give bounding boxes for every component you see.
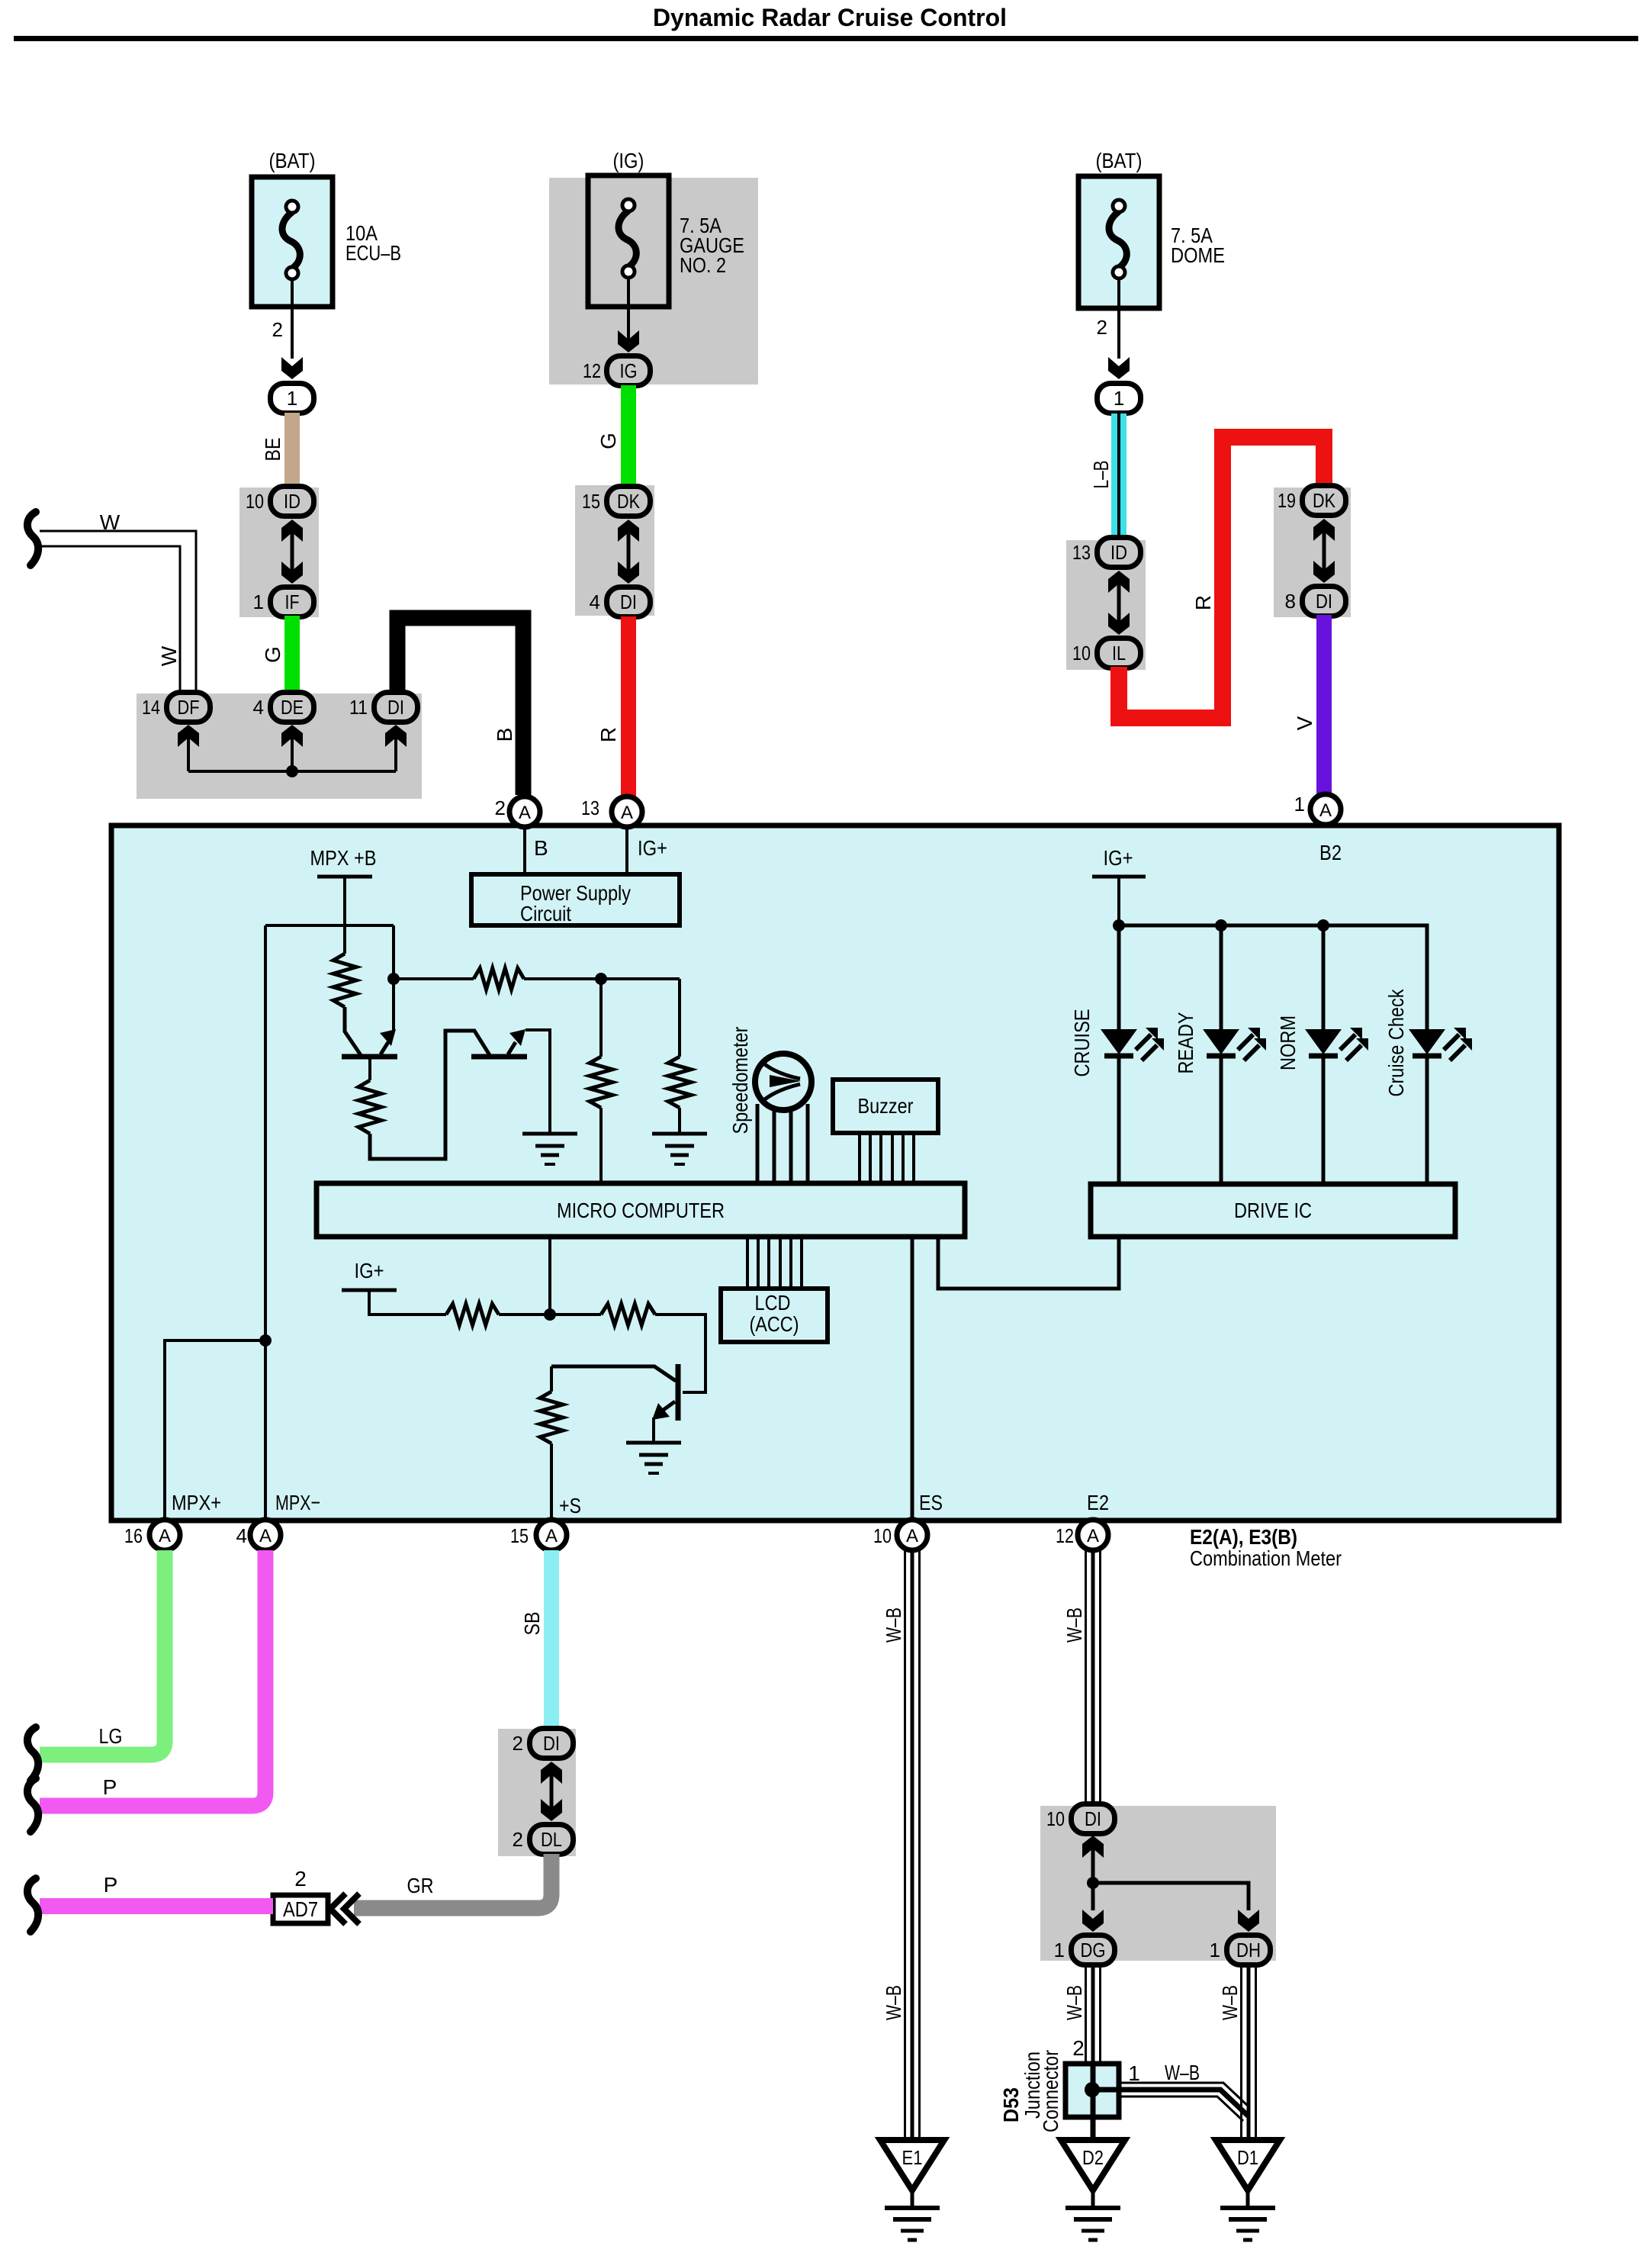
wire R2 line [394, 977, 474, 980]
svg-text:E2: E2 [1087, 1491, 1109, 1514]
svg-text:BE: BE [261, 438, 284, 462]
svg-text:DOME: DOME [1171, 243, 1225, 267]
wire MPX+B down [343, 877, 346, 954]
connector oval DI pin 10 bottom [1072, 1804, 1115, 1834]
wire crossbar [265, 924, 394, 927]
svg-text:12: 12 [1056, 1524, 1074, 1547]
svg-text:(BAT): (BAT) [1096, 149, 1143, 172]
squiggle P 2 [27, 1878, 38, 1932]
wire V [1316, 615, 1332, 795]
wire L-B [1111, 414, 1127, 539]
svg-text:DI: DI [387, 696, 404, 719]
wire 13A to PS [625, 827, 628, 874]
svg-text:V: V [1293, 716, 1316, 730]
connector oval DI pin 11 [374, 693, 418, 722]
arrow into connector 1 [281, 357, 303, 379]
wire W-B E2 [1085, 1550, 1087, 1806]
micro computer box [317, 1183, 965, 1237]
wire W-B ES [904, 1550, 906, 2140]
wire R2 line b [524, 977, 680, 980]
svg-text:ID: ID [284, 490, 301, 513]
svg-text:10: 10 [1072, 642, 1091, 665]
transistor Q1 emitter [381, 1042, 388, 1054]
svg-text:CRUISE: CRUISE [1070, 1009, 1094, 1077]
resistor R6 [446, 1304, 499, 1325]
fuse F1 ECU-B 10A [252, 177, 333, 307]
svg-text:A: A [159, 1526, 171, 1546]
resistor R5 [668, 1057, 691, 1108]
svg-text:IF: IF [285, 591, 300, 613]
svg-text:2: 2 [513, 1828, 523, 1851]
svg-text:A: A [545, 1526, 558, 1546]
LED CRUISE [1101, 1029, 1137, 1054]
connector oval DI pin 2 [530, 1729, 574, 1759]
connector gray box DI/DL [498, 1729, 576, 1856]
svg-text:1: 1 [1210, 1939, 1220, 1961]
LCD box [721, 1289, 828, 1342]
svg-text:4: 4 [236, 1524, 247, 1547]
svg-text:W–B: W–B [882, 1985, 905, 2020]
svg-text:P: P [103, 1775, 117, 1799]
svg-text:A: A [621, 803, 633, 823]
wire D53 to DH [1119, 2083, 1249, 2107]
svg-text:AD7: AD7 [283, 1897, 318, 1921]
svg-text:MICRO COMPUTER: MICRO COMPUTER [557, 1199, 725, 1222]
wire B thick black [397, 618, 523, 795]
svg-text:NORM: NORM [1276, 1015, 1300, 1070]
arrow into DG [1082, 1910, 1104, 1932]
wire W double line [40, 531, 196, 693]
svg-text:DE: DE [281, 696, 304, 719]
svg-text:2: 2 [513, 1732, 523, 1755]
buzzer comb [858, 1133, 861, 1183]
combination meter box [111, 825, 1559, 1521]
drive ic box [1091, 1184, 1455, 1237]
svg-text:10: 10 [1046, 1807, 1065, 1830]
svg-text:4: 4 [590, 591, 600, 613]
svg-text:W–B: W–B [1062, 1607, 1086, 1643]
svg-text:DF: DF [178, 696, 200, 719]
junction dot IG lower [544, 1308, 556, 1321]
svg-text:B: B [534, 836, 548, 860]
svg-text:ECU–B: ECU–B [346, 241, 401, 265]
svg-text:DRIVE IC: DRIVE IC [1234, 1199, 1312, 1222]
connector oval DF pin 14 [167, 693, 211, 722]
double arrow DK-DI [618, 520, 639, 542]
svg-text:Circuit: Circuit [520, 902, 571, 925]
connector oval DI pin 8 [1303, 587, 1346, 616]
svg-text:1: 1 [1054, 1939, 1065, 1961]
AD7 box [273, 1895, 328, 1923]
svg-text:W–B: W–B [1062, 1985, 1086, 2020]
svg-text:NO. 2: NO. 2 [680, 253, 726, 277]
svg-text:11: 11 [349, 696, 368, 719]
wire Q1 base down [368, 1057, 371, 1080]
IG+ right bar [1092, 875, 1146, 879]
LED wire NORM [1322, 925, 1326, 1029]
resistor R8 [540, 1392, 563, 1443]
LED wire READY [1220, 925, 1223, 1029]
resistor R7 [601, 1304, 655, 1325]
svg-text:LCD: LCD [755, 1291, 791, 1315]
svg-text:MPX +B: MPX +B [310, 846, 377, 870]
ground D2 [1061, 2140, 1125, 2190]
svg-text:2: 2 [1072, 2036, 1085, 2060]
ground Q3 [626, 1441, 681, 1445]
connector gray box ID/IL [1066, 540, 1146, 670]
resistor R4 [590, 1057, 612, 1108]
ground E1 [880, 2140, 944, 2190]
svg-text:IG: IG [620, 359, 638, 382]
speedometer needle [762, 1062, 800, 1079]
pin 2 A circle [509, 796, 540, 827]
arrow into DF [178, 725, 199, 747]
svg-text:DG: DG [1081, 1939, 1106, 1961]
svg-text:E2(A), E3(B): E2(A), E3(B) [1190, 1525, 1297, 1549]
svg-text:2: 2 [272, 318, 283, 341]
svg-text:Speedometer: Speedometer [728, 1027, 752, 1134]
wire R5 to ground [678, 1108, 681, 1134]
fuse F2 7.5A GAUGE NO.2 [588, 175, 669, 307]
wire branch to DH [1093, 1883, 1249, 1910]
IG+ lower bar [342, 1289, 397, 1292]
arrow into DI [385, 725, 407, 747]
svg-text:W: W [100, 510, 121, 534]
svg-text:G: G [261, 646, 284, 663]
buzzer box [833, 1080, 938, 1133]
junction dot DE [286, 765, 298, 777]
resistor R1 [333, 954, 356, 1007]
wire fuse F2 to IG [627, 307, 630, 343]
svg-text:DK: DK [1313, 489, 1336, 512]
connector oval ID pin 13 [1098, 538, 1141, 568]
svg-text:A: A [519, 803, 531, 823]
wire R7 to Q3 base [655, 1315, 705, 1392]
wire R (gauge to meter) [621, 616, 636, 797]
svg-text:8: 8 [1285, 590, 1296, 613]
connector oval ID pin 10 [271, 487, 314, 517]
pin 15 A circle [536, 1520, 567, 1550]
svg-text:DI: DI [1316, 590, 1332, 613]
wire MPX+ branch [165, 1340, 265, 1521]
D53 junction connector box [1065, 2064, 1119, 2117]
wire R4 to MC [599, 1108, 603, 1183]
wire BE [284, 413, 300, 487]
svg-text:A: A [1319, 800, 1332, 821]
svg-text:2: 2 [1097, 316, 1107, 339]
junction dot Q1 [387, 973, 400, 985]
squiggle P [27, 1778, 38, 1832]
svg-text:+S: +S [559, 1494, 581, 1517]
arrow into DI bottom [1082, 1836, 1104, 1858]
junction dots LED bus [1113, 919, 1125, 932]
connector oval IG pin 12 [607, 356, 651, 386]
wire G (ECU-B to DE) [284, 616, 300, 693]
svg-text:ES: ES [919, 1491, 943, 1514]
wire G (gauge) [621, 385, 636, 487]
connector gray box DF/DE/DI [137, 693, 422, 799]
svg-text:W–B: W–B [1218, 1985, 1242, 2020]
svg-text:LG: LG [99, 1724, 123, 1748]
svg-text:D1: D1 [1237, 2146, 1258, 2169]
transistor Q3 base bar [676, 1364, 681, 1421]
junction dot MPX [259, 1334, 272, 1347]
svg-text:B: B [493, 728, 516, 742]
AD7 chevrons [330, 1894, 346, 1924]
wire fuse F1 pin 2 [291, 307, 294, 359]
svg-text:IG+: IG+ [1104, 846, 1133, 870]
svg-text:(IG): (IG) [613, 149, 644, 172]
svg-text:(ACC): (ACC) [750, 1312, 799, 1336]
pin 10 A circle [897, 1520, 927, 1550]
ground D1 [1216, 2140, 1280, 2190]
connector oval IL pin 10 [1098, 639, 1141, 668]
LED Cruise Check [1409, 1029, 1445, 1054]
junction dot R2 [595, 973, 607, 985]
resistor R3 [358, 1080, 381, 1134]
wire R8 to +S [550, 1443, 553, 1520]
svg-text:L–B: L–B [1089, 461, 1113, 489]
wire down to DG [1091, 1883, 1095, 1910]
LED wire CRUISE [1117, 925, 1121, 1029]
arrow into DE [281, 725, 303, 747]
LED READY [1203, 1029, 1239, 1054]
wire dot to R7 [550, 1313, 601, 1316]
wire MPX- vertical [264, 925, 267, 1521]
svg-text:DH: DH [1236, 1939, 1261, 1961]
svg-text:SB: SB [520, 1612, 544, 1636]
svg-text:12: 12 [583, 359, 601, 382]
svg-text:DI: DI [1085, 1807, 1101, 1830]
top rule [14, 36, 1638, 41]
wire W continuation squiggle [27, 512, 38, 565]
bus line DF-DE-DI [188, 770, 396, 773]
svg-text:13: 13 [1072, 541, 1091, 564]
wire fuse F3 pin 2 [1117, 308, 1120, 359]
LED wire Cruise Check [1425, 925, 1429, 1029]
pin 16 A circle [149, 1520, 180, 1550]
connector oval IF pin 1 [271, 587, 314, 617]
resistor R2 [474, 968, 524, 990]
transistor Q1 collector [345, 1007, 361, 1055]
arrow into DH [1238, 1910, 1259, 1932]
svg-text:W–B: W–B [882, 1607, 905, 1643]
pin 4 A circle [250, 1520, 281, 1550]
svg-text:DI: DI [543, 1732, 560, 1755]
svg-text:IG+: IG+ [355, 1259, 384, 1282]
svg-text:W–B: W–B [1165, 2061, 1200, 2084]
svg-text:D53: D53 [999, 2087, 1023, 2122]
svg-text:1: 1 [287, 387, 297, 410]
speedometer legs [756, 1104, 760, 1183]
arrow into connector 1 dome [1108, 357, 1130, 379]
svg-text:Cruise Check: Cruise Check [1384, 989, 1408, 1097]
svg-text:D2: D2 [1082, 2146, 1104, 2169]
connector oval 1 (ECU-B) [271, 384, 314, 414]
connector gray box DK/DI right [1274, 488, 1351, 617]
svg-text:DI: DI [620, 591, 637, 613]
svg-text:Dynamic Radar Cruise Control: Dynamic Radar Cruise Control [653, 4, 1007, 31]
D53 wire through [1091, 2064, 1096, 2140]
svg-text:1: 1 [1128, 2061, 1140, 2085]
wire MC to DRIVE IC [938, 1237, 1119, 1289]
wire MC to ES [911, 1237, 914, 1520]
ground under Q2 [522, 1132, 577, 1136]
transistor Q2 emitter [508, 1042, 516, 1054]
transistor Q1 base bar [342, 1054, 397, 1060]
svg-text:MPX+: MPX+ [172, 1491, 221, 1514]
double arrow DK-DI right [1313, 519, 1335, 541]
svg-text:W: W [157, 645, 181, 666]
svg-text:IG+: IG+ [638, 836, 667, 860]
wire MC to dot [548, 1237, 551, 1315]
svg-text:Buzzer: Buzzer [858, 1094, 914, 1118]
svg-text:A: A [259, 1526, 272, 1546]
svg-text:15: 15 [510, 1524, 529, 1547]
connector oval 1 (DOME) [1098, 384, 1141, 414]
svg-text:GR: GR [407, 1874, 434, 1897]
wire W-B DG [1085, 1965, 1087, 2064]
svg-text:MPX−: MPX− [275, 1491, 320, 1514]
svg-text:10: 10 [246, 490, 264, 513]
ground under R5 [652, 1132, 707, 1136]
svg-text:15: 15 [582, 490, 600, 513]
wire 2A to PS [523, 827, 526, 874]
wire R dome (staircase) [1119, 437, 1324, 718]
svg-text:B2: B2 [1319, 841, 1342, 864]
double arrow ID-IF [281, 520, 303, 542]
svg-text:(BAT): (BAT) [269, 149, 316, 172]
connector oval DH pin 1 [1227, 1936, 1271, 1965]
svg-text:Connector: Connector [1039, 2050, 1062, 2132]
power supply circuit box [471, 874, 680, 925]
pin 13 A circle [612, 796, 642, 827]
wire R4 vertical [599, 979, 603, 1057]
svg-text:10: 10 [873, 1524, 892, 1547]
svg-text:1: 1 [253, 591, 264, 613]
squiggle LG [27, 1727, 38, 1781]
transistor Q2 base bar [471, 1054, 527, 1060]
connector gray box DK/DI [575, 485, 654, 616]
svg-text:1: 1 [1114, 387, 1124, 410]
MPX +B bar [317, 875, 372, 879]
svg-text:IL: IL [1112, 642, 1126, 665]
arrow into IG oval [618, 330, 639, 352]
svg-text:ID: ID [1110, 541, 1127, 564]
svg-text:A: A [906, 1526, 918, 1546]
svg-text:A: A [1087, 1526, 1099, 1546]
wire LG [40, 1550, 165, 1755]
transistor Q3 collector [551, 1366, 676, 1381]
fuse F3 7.5A DOME [1078, 176, 1159, 308]
svg-text:R: R [596, 727, 620, 742]
wire R8 top [550, 1366, 553, 1392]
connector oval DL pin 2 [530, 1825, 574, 1855]
wire P to AD7 [40, 1898, 273, 1914]
double arrow DI-DL [541, 1762, 562, 1784]
svg-text:DL: DL [541, 1828, 562, 1851]
svg-text:2: 2 [495, 796, 506, 819]
wire R5 vertical [678, 979, 681, 1057]
svg-text:1: 1 [1294, 793, 1305, 816]
connector oval DK pin 15 [607, 487, 651, 517]
wire Q2 emitter to ground [525, 1030, 550, 1134]
pin 1 A circle [1310, 794, 1341, 825]
wire IG+ lower [369, 1290, 446, 1315]
wire Q1 emitter vertical [392, 925, 395, 1031]
connector oval DK pin 19 [1303, 486, 1346, 516]
wire R3 to Q2 [370, 1031, 490, 1159]
pin 12 A circle [1078, 1520, 1108, 1550]
svg-text:P: P [104, 1873, 118, 1897]
junction dot D53 net [1087, 1877, 1099, 1889]
wire W-B DH [1240, 1965, 1242, 2140]
transistor Q3 emitter [661, 1401, 675, 1411]
svg-text:13: 13 [581, 796, 599, 819]
connector oval DI pin 4 [607, 587, 651, 617]
svg-text:DK: DK [617, 490, 641, 513]
connector gray box DI/DG/DH [1040, 1806, 1276, 1961]
wire SB [544, 1550, 559, 1729]
wire IG+ down [1117, 877, 1120, 925]
connector oval DG pin 1 [1072, 1936, 1115, 1965]
connector gray box ID/IF [239, 488, 319, 617]
svg-text:R: R [1191, 595, 1215, 610]
svg-text:Combination Meter: Combination Meter [1190, 1546, 1342, 1570]
connector oval DE pin 4 [271, 693, 314, 722]
svg-text:READY: READY [1174, 1012, 1197, 1073]
wire P mpx [40, 1550, 265, 1806]
double arrow ID-IL [1108, 571, 1130, 593]
LED bus [1119, 925, 1427, 1029]
LCD comb [746, 1237, 749, 1289]
svg-text:19: 19 [1278, 489, 1296, 512]
svg-text:G: G [596, 433, 620, 449]
wire GR [354, 1854, 551, 1908]
svg-text:2: 2 [294, 1867, 307, 1891]
wire R6 to dot [499, 1313, 550, 1316]
svg-text:14: 14 [142, 696, 160, 719]
wire Q3 emitter ground [652, 1418, 655, 1443]
svg-text:4: 4 [253, 696, 264, 719]
svg-text:16: 16 [124, 1524, 143, 1547]
speedometer circle [755, 1054, 812, 1110]
svg-text:E1: E1 [902, 2146, 923, 2169]
LED NORM [1305, 1029, 1342, 1054]
D53 junction dot [1085, 2082, 1100, 2097]
gray panel GAUGE [549, 178, 758, 385]
